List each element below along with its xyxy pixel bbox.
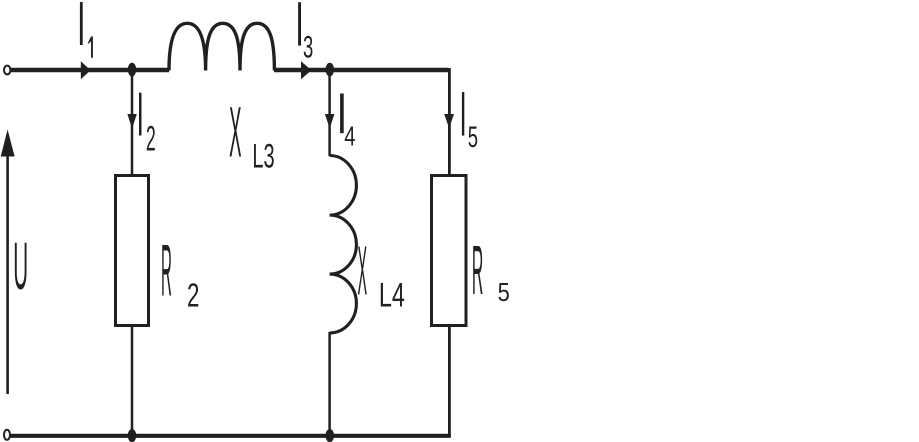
arrow I4 xyxy=(325,114,335,129)
inductor L4 xyxy=(330,156,357,333)
label I2 subscript 2 xyxy=(146,119,156,158)
arrow I1 xyxy=(81,61,91,79)
wire bottom rail xyxy=(10,434,451,438)
label R of R5 xyxy=(472,232,483,309)
svg-text:R: R xyxy=(161,230,172,312)
label R2 subscript 2 xyxy=(187,277,199,315)
svg-text:U: U xyxy=(13,228,28,304)
junction node top-left xyxy=(128,63,137,77)
svg-text:X: X xyxy=(229,92,241,171)
label I3 subscript 3 xyxy=(303,28,313,65)
wire right vertical upper xyxy=(448,68,451,176)
wire branch2 bottom stub xyxy=(131,325,134,437)
svg-text:L4: L4 xyxy=(379,276,405,315)
label I5 bar xyxy=(462,92,464,136)
terminal bottom-left xyxy=(4,430,10,440)
label X of XL4 xyxy=(357,232,367,310)
wire branch3 bottom stub xyxy=(328,332,331,437)
label L3 subscript xyxy=(252,137,274,175)
label I4 bar xyxy=(340,94,344,134)
arrow I3 xyxy=(301,61,311,79)
svg-text:4: 4 xyxy=(344,122,355,153)
svg-text:3: 3 xyxy=(303,28,313,65)
terminal top-left xyxy=(4,66,10,75)
label R5 subscript 5 xyxy=(498,278,510,307)
wire top segment right xyxy=(274,68,449,72)
label I2 bar xyxy=(139,93,142,136)
arrow I5 xyxy=(444,114,454,128)
svg-text:2: 2 xyxy=(187,277,199,315)
wire branch3 top stub xyxy=(328,68,331,156)
svg-text:X: X xyxy=(357,232,367,310)
label I3 bar xyxy=(298,2,301,45)
svg-text:L3: L3 xyxy=(252,137,274,175)
label U xyxy=(13,228,28,304)
wire right vertical lower xyxy=(448,325,451,437)
label I5 subscript 5 xyxy=(468,122,478,154)
label I4 subscript 4 xyxy=(344,122,355,153)
arrow I2 xyxy=(127,114,136,129)
junction node bottom-left xyxy=(128,429,137,442)
wire branch2 top stub xyxy=(131,68,134,176)
inductor L3 xyxy=(169,23,274,70)
label I1 bar xyxy=(80,2,83,45)
resistor R5 xyxy=(432,176,467,326)
label X of XL3 xyxy=(229,92,241,171)
arrowhead U xyxy=(1,130,15,157)
svg-text:5: 5 xyxy=(498,278,510,307)
svg-text:5: 5 xyxy=(468,122,478,154)
wire top segment left xyxy=(11,68,170,72)
label I1 subscript 1 xyxy=(88,37,93,58)
svg-text:2: 2 xyxy=(146,119,156,158)
resistor R2 xyxy=(116,176,149,326)
label R of R2 xyxy=(161,230,172,312)
junction node top-right xyxy=(326,63,335,77)
svg-text:R: R xyxy=(472,232,483,309)
wire U arrow shaft xyxy=(6,152,9,394)
label L4 subscript xyxy=(379,276,405,315)
junction node bottom-right xyxy=(326,429,335,442)
